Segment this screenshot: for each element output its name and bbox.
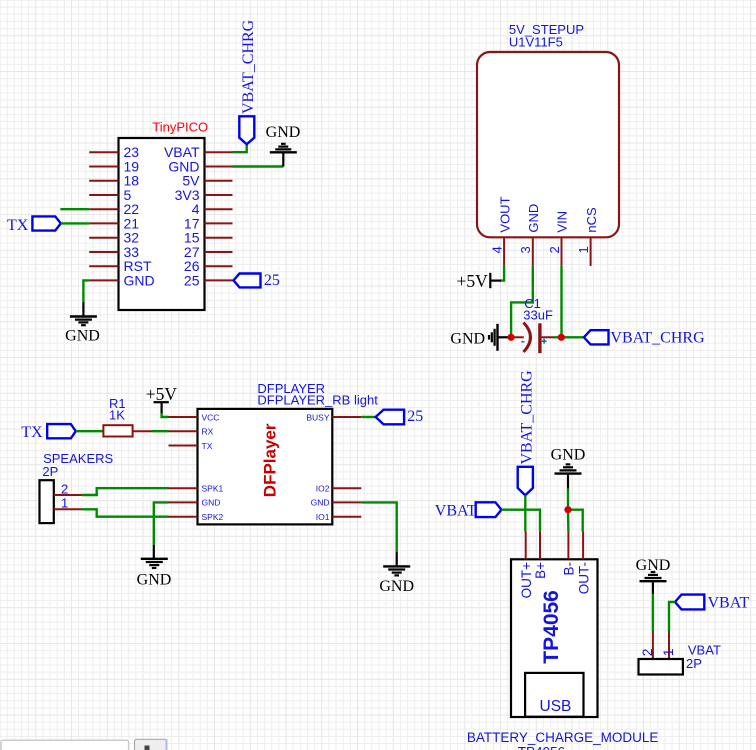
svg-text:2: 2 [61,481,68,496]
connector body 2P [639,659,683,675]
UI bar bottom left [1,739,168,750]
resistor R1 1K [103,396,132,437]
svg-text:B+: B+ [533,562,548,579]
net flag VBAT_CHRG (top) [239,19,257,144]
component body TinyPICO [119,138,205,310]
pin 21 [89,215,139,231]
pin B- [562,532,577,576]
svg-text:IO2: IO2 [316,484,330,494]
svg-text:TX: TX [202,441,213,451]
svg-text:SPK1: SPK1 [202,484,224,494]
speaker pin 1 [54,496,82,511]
wire GND down to node [567,489,569,510]
svg-text:VBAT: VBAT [708,595,750,612]
net flag VBAT (left of TP4056) [435,502,502,519]
svg-text:2P: 2P [42,464,58,479]
connector SPEAKERS 2P [40,451,114,523]
component body DFPlayer [198,409,333,525]
svg-text:2P: 2P [686,656,702,671]
junction node (VIN / VBAT_CHRG) [558,334,565,341]
svg-text:+5V: +5V [457,271,489,291]
svg-text:4: 4 [490,246,505,253]
svg-text:1: 1 [61,496,68,511]
svg-text:1: 1 [660,648,676,656]
net flag VBAT_CHRG (vertical, above TP4056) [518,370,536,495]
pin 32 [89,230,139,246]
wire +5V to VCC [162,413,169,417]
pin 5V [182,173,232,189]
svg-text:OUT+: OUT+ [519,562,534,598]
svg-text:25: 25 [407,408,423,425]
wire node to C1 [511,336,524,338]
wire GND pin jog to node [511,266,533,337]
pin GND (DFPlayer left) [169,498,221,508]
pin GND (left) [89,272,154,288]
pin IO2 [316,484,362,494]
svg-text:VBAT_CHRG: VBAT_CHRG [610,330,705,347]
svg-text:DFPlayer: DFPlayer [260,423,279,497]
svg-text:SPK2: SPK2 [202,512,224,522]
speaker pin 2 [54,481,82,496]
ground GND (left of C1, bars left) [450,324,508,351]
wire DFPlayer GND left down [154,502,169,545]
svg-text:GND: GND [65,328,100,345]
pin 19 [89,159,139,175]
pin BUSY [306,412,361,422]
wire TX flag to pin 21 [61,222,89,224]
svg-text:BUSY: BUSY [306,412,329,422]
wire VIN down to node [560,266,562,337]
pin 3V3 [175,187,233,203]
wire stub pin 22 [60,208,89,210]
svg-text:GND: GND [526,204,541,233]
junction node (GND / B- / OUT-) [564,506,571,513]
pin SPK1 [169,484,224,494]
wire VBAT pin to flag [233,144,247,152]
svg-text:TP4056: TP4056 [518,745,565,750]
wire speaker2 to SPK1 [82,488,169,495]
svg-text:VBAT_CHRG: VBAT_CHRG [519,370,536,465]
wire VOUT down [501,266,505,281]
connector 2P pin 2 [639,631,655,659]
svg-text:USB: USB [540,698,572,715]
net flag 25 (DFPlayer) [376,408,424,425]
svg-text:GND: GND [124,272,155,288]
svg-text:+5V: +5V [146,384,178,404]
pin RST [89,258,152,274]
pin RX [169,427,214,437]
wire GND pin to ground (bottom left) [83,280,89,302]
capacitor C1 33uF [521,296,553,353]
pin 4 [192,201,233,217]
pin 27 [184,244,233,260]
svg-text:IO1: IO1 [316,512,330,522]
net flag TX (DFPlayer) [21,424,76,441]
wire R1 to RX [133,430,152,432]
pin 3 GND [518,204,541,266]
pin GND (right) [168,159,232,175]
net flag TX (TinyPICO) [7,216,61,234]
pin 4 VOUT [490,196,513,265]
power +5V (at DFPlayer) [146,384,178,414]
svg-text:GND: GND [450,331,485,348]
ground GND (below TinyPICO) [65,302,100,345]
svg-text:BATTERY_CHARGE_MODULE: BATTERY_CHARGE_MODULE [467,730,659,745]
net flag VBAT_CHRG (middle right) [584,330,705,347]
connector 2P pin 1 [660,631,676,659]
svg-text:VCC: VCC [202,412,220,422]
net flag 25 (TinyPICO) [234,272,280,289]
svg-text:TX: TX [7,217,29,234]
ground GND (below speakers) [137,545,172,589]
svg-text:2: 2 [547,246,562,253]
pin 25 [184,272,233,288]
junction node (GND / C1-) [508,334,515,341]
pin IO1 [316,512,362,522]
svg-text:2: 2 [639,648,655,656]
svg-text:GND: GND [379,578,414,595]
pin 5 [89,187,131,203]
pin 26 [184,258,233,274]
svg-text:B-: B- [562,562,577,576]
svg-text:GND: GND [551,447,586,464]
wire VBAT flag to pin1 [669,602,675,631]
svg-text:25: 25 [264,272,280,289]
wire C1 to node2 [542,336,554,338]
svg-text:3: 3 [518,246,533,253]
wire TX flag to R1 [76,430,104,432]
svg-text:U1V11F5: U1V11F5 [509,35,563,50]
svg-text:1K: 1K [109,408,125,423]
svg-text:1: 1 [576,246,591,253]
svg-text:25: 25 [184,272,200,288]
pin 15 [184,230,233,246]
pin 23 [89,144,139,160]
wire GND to pin2 [652,594,654,631]
svg-text:VBAT_CHRG: VBAT_CHRG [240,19,257,114]
component body TP4056 [511,559,598,717]
svg-text:TX: TX [21,424,43,441]
svg-text:GND: GND [311,498,330,508]
svg-text:TinyPICO: TinyPICO [152,120,208,135]
ground GND (top right, bars up) [266,124,301,167]
wire BUSY to flag [361,416,375,418]
svg-text:33uF: 33uF [523,308,553,323]
wire VBAT_CHRG flag to OUT+ [524,495,526,531]
wire GND pin to ground [233,165,284,167]
svg-text:VBAT: VBAT [435,503,477,520]
pin OUT+ [519,532,534,599]
wire node to B- [567,510,570,532]
pin 17 [184,215,233,231]
pin VBAT [164,144,233,160]
USB box [525,673,583,717]
ground GND (above TP4056, bars down) [551,447,586,489]
power +5V (at stepup) [457,271,502,291]
pin TX [169,441,213,451]
svg-text:OUT-: OUT- [576,562,591,594]
svg-text:VIN: VIN [555,211,570,233]
svg-text:nCS: nCS [584,207,599,233]
wire node to OUT- [568,510,583,532]
component body U1V11F5 regulator [477,52,619,237]
svg-text:GND: GND [137,572,172,589]
wire speaker1 to SPK2 [82,509,169,516]
svg-text:GND: GND [202,498,221,508]
pin GND (DFPlayer right) [311,498,362,508]
ground GND (above 2P, bars down) [636,557,671,594]
pin VCC [169,412,220,422]
wire DFPlayer GND right down [361,502,396,552]
pin B+ [533,532,548,579]
pin 2 VIN [547,211,570,266]
svg-text:VOUT: VOUT [497,196,512,232]
svg-text:GND: GND [266,124,301,141]
pin 1 nCS [576,207,599,266]
pin 22 [89,201,139,217]
pin 33 [89,244,139,260]
pin SPK2 [169,512,224,522]
svg-text:RX: RX [202,427,214,437]
net flag VBAT (right) [675,595,750,612]
ground GND (right of DFPlayer) [379,552,414,595]
pin OUT- [576,532,591,595]
pin 18 [89,173,139,189]
svg-text:TP4056: TP4056 [540,590,563,664]
svg-text:DFPLAYER_RB light: DFPLAYER_RB light [257,393,378,408]
wire VBAT flag to B+ [501,510,540,532]
